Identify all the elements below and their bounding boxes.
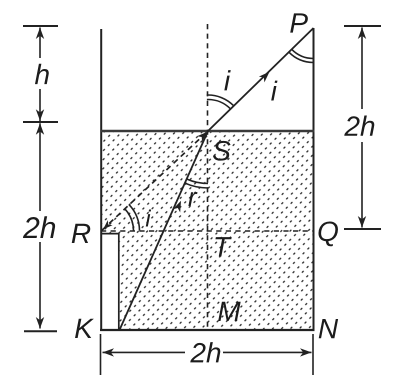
normal (vertical dashed line through S)	[207, 24, 209, 330]
bottom extension tick at K	[100, 334, 102, 375]
label 2h left	[22, 211, 58, 242]
refracted ray S to P	[208, 28, 314, 131]
dimension 2h left: down arrow	[36, 317, 44, 329]
label h	[29, 58, 54, 89]
dimension 2h left: line	[39, 123, 41, 328]
arrowhead on refracted ray	[259, 72, 270, 83]
arrowhead of R-S at R	[103, 220, 112, 229]
dimension h: top tick	[23, 25, 58, 27]
bottom of tank (K-N)	[100, 329, 315, 331]
angle i double arc at S above surface	[207, 100, 231, 109]
label i on refracted ray	[271, 81, 277, 101]
angle i double arc at P	[292, 49, 314, 58]
tick at water level (left)	[23, 121, 58, 123]
label 2h bottom	[190, 342, 220, 362]
horizontal dashed line R-Q	[101, 230, 314, 232]
dimension 2h right: down arrow	[358, 216, 366, 228]
label R	[72, 224, 91, 243]
incident ray from K corner to S	[120, 131, 209, 330]
label S	[213, 141, 231, 161]
label K	[75, 319, 94, 338]
label M	[218, 302, 240, 321]
opaque strip below R	[102, 233, 119, 329]
label Q	[318, 221, 337, 246]
dashed apparent ray R-S	[102, 132, 207, 230]
label P	[290, 13, 308, 32]
dimension h: down arrow	[36, 109, 44, 121]
bottom extension tick at N	[312, 334, 314, 375]
dimension 2h right: bottom tick	[344, 228, 381, 230]
dimension 2h bottom: left arrow	[103, 348, 115, 356]
dimension 2h right: top tick	[344, 25, 381, 27]
dimension h: line	[39, 28, 41, 122]
water (hatched region)	[101, 131, 314, 330]
label T	[215, 237, 231, 256]
angle r double arc below S	[187, 179, 208, 184]
right wall of tank (N-P)	[313, 28, 315, 330]
dimension 2h left: bottom tick	[24, 330, 57, 332]
left wall of tank	[100, 29, 102, 330]
dimension 2h right: up arrow	[358, 28, 366, 40]
label i at normal above S	[224, 70, 230, 90]
arrowhead on incident ray	[173, 201, 181, 213]
dimension 2h right: line	[361, 28, 363, 228]
arrowhead of R-S at S	[197, 132, 207, 142]
label r below S	[188, 192, 197, 206]
label i at R	[146, 209, 151, 226]
dimension 2h bottom: right arrow	[300, 348, 312, 356]
angle i double arc at R	[125, 209, 134, 231]
dimension h: up arrow	[36, 28, 44, 40]
label 2h right	[341, 109, 382, 142]
label N	[319, 319, 338, 338]
water surface	[101, 130, 315, 133]
dimension 2h bottom: line	[103, 351, 186, 353]
dimension 2h left: up arrow	[36, 123, 44, 135]
